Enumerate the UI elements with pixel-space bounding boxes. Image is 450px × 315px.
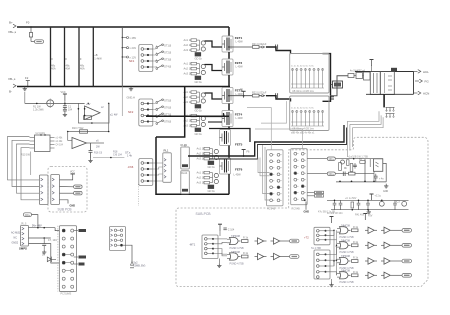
bridge BD1 dark — [391, 68, 397, 71]
transformer T1 — [370, 72, 380, 95]
vcc stub MT1 — [218, 224, 222, 236]
wire row3 to oval — [60, 192, 74, 194]
svg-text:GND2: GND2 — [12, 242, 19, 245]
wire left loop 4 — [21, 148, 39, 200]
connector J1 B+ — [8, 21, 17, 34]
capacitor C32 plus — [374, 174, 384, 182]
op-amp U1 — [85, 103, 105, 120]
buffer B42 — [271, 238, 283, 244]
wire row C top rail — [327, 199, 409, 201]
svg-text:+B: +B — [94, 53, 98, 57]
svg-text:C4 104: C4 104 — [56, 145, 64, 147]
wire MT collector verticals — [334, 230, 337, 275]
svg-text:x2, 4W: x2, 4W — [110, 114, 118, 117]
switch SW1b — [156, 51, 172, 56]
resistor R44 — [352, 226, 359, 232]
svg-text:+1u/10B 1W 1.7SB: +1u/10B 1W 1.7SB — [348, 155, 369, 158]
text smps left pins — [11, 232, 20, 245]
ground G3 — [63, 112, 67, 116]
svg-text:FET6: FET6 — [235, 168, 243, 172]
svg-text:SMPS: SMPS — [19, 247, 27, 251]
svg-text:L 40W: L 40W — [234, 174, 242, 177]
diode D5 zener — [42, 254, 56, 263]
wire block top edge — [146, 115, 229, 117]
resistor R42 — [242, 237, 249, 243]
component K1 dark box — [331, 81, 343, 88]
svg-text:74HC08: 74HC08 — [231, 251, 240, 254]
svg-text:(SMB, BV): (SMB, BV) — [134, 265, 146, 268]
svg-text:C 104: C 104 — [228, 229, 235, 232]
buffer B52 — [381, 272, 393, 278]
sense stub S3 — [122, 55, 137, 59]
wire gate FET4 thick — [205, 113, 224, 117]
svg-text:1s 2s 3s 4s 5s 6s 7s 8s: 1s 2s 3s 4s 5s 6s 7s 8s — [291, 108, 315, 110]
vcc stub small left — [330, 217, 334, 224]
opto coupler PC2 — [374, 159, 383, 182]
svg-text:VCC: VCC — [70, 171, 75, 173]
vcc stub phase B — [240, 88, 246, 98]
wire lower link — [93, 157, 124, 159]
capacitor C21 — [276, 45, 278, 50]
net label oval O44 — [402, 244, 412, 248]
switch SW2a — [156, 99, 172, 104]
capacitor C41 — [223, 228, 234, 232]
wire row C bottom rail — [331, 209, 409, 211]
wire NF3 to relay box — [153, 163, 163, 181]
driver cluster GD4 — [184, 114, 206, 136]
transformer box TX1 — [290, 54, 329, 94]
wire to oval O45 — [393, 260, 402, 262]
net label oval CD1 — [327, 157, 335, 161]
svg-text:B+: B+ — [9, 21, 13, 25]
fuse F2 stub — [25, 76, 30, 87]
ground G1 under bus — [127, 87, 135, 100]
svg-text:R 1k: R 1k — [353, 241, 359, 244]
svg-text:74HC08: 74HC08 — [231, 235, 240, 238]
net label oval CD3 — [24, 213, 32, 217]
resistor R32 — [307, 195, 323, 198]
connector NF3 — [128, 159, 153, 186]
svg-text:F2: F2 — [25, 76, 29, 80]
buffer B47 — [365, 242, 377, 248]
dotted pcb boundary below NF3 — [137, 184, 139, 206]
svg-text:GND,H: GND,H — [127, 96, 135, 100]
wire psu top rail — [355, 71, 414, 73]
op-amp U2 — [72, 138, 104, 149]
svg-text:GT2,B: GT2,B — [164, 52, 172, 55]
regulator IC3 — [396, 201, 407, 207]
ground G5 — [42, 250, 46, 254]
resistor R34 — [349, 172, 356, 175]
connector MT1 — [189, 235, 218, 259]
wire FET4-FET5 link — [228, 127, 230, 130]
connector NF1 — [129, 45, 153, 72]
svg-text:1.2k 2W6: 1.2k 2W6 — [33, 109, 44, 112]
transistor FET2 — [222, 59, 243, 75]
buffer B46 — [381, 227, 393, 233]
svg-text:SUB-PCB: SUB-PCB — [196, 212, 212, 216]
svg-text:PC'SUMS: PC'SUMS — [61, 293, 72, 296]
wire gate FET2 thick — [205, 65, 223, 71]
resistor R47 — [352, 271, 359, 277]
wire comb link1 — [386, 110, 388, 118]
resistor R45 — [352, 241, 359, 247]
node phase A tap — [228, 46, 252, 48]
driver cluster GD2 — [184, 62, 206, 84]
svg-text:-MT1: -MT1 — [189, 243, 196, 247]
connector MT2 — [314, 227, 330, 245]
wire CN2 to CD1 — [307, 158, 327, 160]
text R1 — [33, 106, 44, 112]
comb connector CB1 — [386, 107, 395, 111]
svg-text:+ 4x: + 4x — [379, 178, 384, 181]
wire rail A — [335, 158, 383, 160]
sub-pcb dashed border — [176, 137, 428, 286]
wire to oval O41 — [283, 240, 290, 242]
wire U1 feedback loop — [78, 103, 109, 123]
svg-text:GT5,B: GT5,B — [164, 100, 172, 103]
wire box1 TR corner thick — [323, 54, 331, 96]
wire MT1 to gates — [213, 239, 227, 256]
switch SW2b — [156, 106, 172, 111]
svg-text:GT3,B: GT3,B — [164, 59, 172, 62]
svg-text:x 24V: x 24V — [130, 46, 137, 50]
svg-text:R 1k: R 1k — [243, 237, 249, 240]
capacitor C23 dark — [331, 97, 334, 99]
resistor R46 — [352, 257, 359, 263]
svg-text:AC-M(S): AC-M(S) — [11, 232, 20, 235]
net label oval CD2 — [327, 172, 335, 176]
wire FET6 to block bottom — [228, 174, 230, 194]
svg-text:5V+ 48V: 5V+ 48V — [32, 224, 42, 227]
svg-text:74HC08: 74HC08 — [341, 224, 350, 227]
svg-text:IC3: IC3 — [396, 201, 400, 204]
node dots row C — [334, 200, 383, 211]
wire routing light B — [261, 101, 287, 123]
wire block top step — [156, 116, 185, 137]
component ACF chain — [348, 70, 370, 81]
ground G8 — [217, 259, 221, 268]
wire CN2 to CD2 — [307, 173, 327, 175]
svg-text:R 1k: R 1k — [353, 257, 359, 260]
svg-text:L 40W: L 40W — [236, 117, 244, 120]
smps module PS1 — [19, 223, 29, 251]
node dots rail C — [339, 181, 375, 183]
wire row2 to oval — [60, 186, 74, 188]
wire left loop 3 — [17, 144, 40, 193]
wire gate FET1 thick — [205, 41, 223, 47]
wire bus drop to block — [184, 87, 186, 117]
svg-text:R 1k: R 1k — [243, 252, 249, 255]
wire MT collector v1 — [326, 230, 337, 275]
connector CN-B — [51, 175, 60, 205]
wire FET4 source out thick — [209, 129, 250, 143]
wire smps out3 — [29, 244, 60, 263]
wire left loop 2 — [12, 140, 39, 186]
capacitor C31 — [343, 172, 345, 177]
connector MT3 — [311, 248, 330, 279]
wire psu down thick — [383, 94, 385, 107]
wire strip1 row feeds — [258, 158, 270, 176]
wire FET5-FET6 link — [228, 146, 230, 159]
gate U41 — [227, 235, 241, 245]
svg-text:NF2: NF2 — [128, 110, 134, 114]
svg-text:t1B 40ms x4 t2B 1ms: t1B 40ms x4 t2B 1ms — [292, 90, 315, 93]
wire FET1-FET2 link — [228, 52, 230, 59]
ground G9 — [329, 279, 333, 287]
resistor R21 — [252, 43, 267, 49]
transistor FET6 — [220, 158, 243, 177]
vcc stub psu — [370, 60, 374, 72]
resistor R10 — [67, 127, 110, 133]
svg-text:FET2: FET2 — [235, 61, 243, 65]
svg-text:74HC08: 74HC08 — [341, 239, 350, 242]
wire psu bottom rail — [366, 93, 414, 95]
buffer B48 — [381, 242, 393, 248]
wire routing light C — [255, 129, 303, 149]
switch SW1a — [156, 44, 172, 49]
capacitor C1 pair — [63, 103, 67, 112]
switch SW2d — [156, 120, 172, 125]
wire psu loop light1 — [347, 111, 379, 121]
transistor FET4 — [222, 111, 243, 127]
gate U43 — [337, 224, 351, 234]
wire strip1 left feed 1 — [263, 145, 270, 194]
node mid A — [259, 46, 275, 48]
cell shunt W2 — [65, 27, 71, 87]
svg-text:1s 2s 3s 4s 5s 6s 7s 8s: 1s 2s 3s 4s 5s 6s 7s 8s — [291, 66, 315, 68]
transformer box TX2 — [290, 96, 329, 131]
node dots MT — [333, 230, 337, 262]
svg-text:+C 1u: +C 1u — [375, 195, 382, 198]
wire phase C thick — [188, 125, 344, 156]
svg-text:ACN: ACN — [423, 92, 429, 96]
buffer B43 — [255, 253, 267, 259]
svg-text:1 4k: 1 4k — [127, 154, 133, 158]
net label oval O41 — [290, 239, 300, 243]
wire psu right rail — [413, 72, 415, 95]
svg-text:40A: 40A — [51, 67, 56, 71]
ground G2 below bus — [23, 87, 27, 104]
svg-text:74HC08: 74HC08 — [341, 255, 350, 258]
transistor FET1 — [222, 36, 243, 52]
label tag T1 dark — [74, 229, 86, 232]
capacitor C30 — [353, 158, 357, 169]
svg-text:GND: GND — [70, 205, 76, 208]
resistor R33 vertical — [344, 160, 349, 170]
svg-text:1.4kW: 1.4kW — [94, 57, 102, 61]
switch SW2c — [156, 113, 172, 118]
connector NF2 — [128, 99, 153, 126]
wire to oval O44 — [393, 244, 402, 246]
buffer B51 — [365, 272, 377, 278]
gate U45 — [337, 255, 351, 265]
wire to oval O43 — [393, 229, 402, 231]
resistor R37 vertical — [351, 202, 354, 208]
svg-text:CD+: CD+ — [329, 172, 335, 176]
net label oval SP1 — [74, 185, 83, 189]
svg-text:PGND 4.7SB: PGND 4.7SB — [340, 251, 354, 254]
svg-text:RLA4: RLA4 — [181, 172, 188, 175]
sense stub S1 — [122, 36, 137, 40]
wire FET4 aux — [208, 121, 222, 123]
wire JB1 out — [123, 245, 146, 268]
resistor R35 vertical — [339, 163, 342, 171]
wire psu loop light2 — [350, 115, 381, 124]
wire to oval O42 — [283, 256, 290, 258]
text under TX2 — [291, 133, 315, 135]
transistor FET5 — [220, 130, 243, 147]
svg-text:Tw 4.7SB: Tw 4.7SB — [311, 248, 321, 250]
svg-text:NC: NC — [14, 237, 18, 240]
wire rail B — [335, 173, 374, 175]
current transformer CT1 — [47, 99, 54, 109]
buffer B50 — [381, 258, 393, 264]
cell shunt W4 — [93, 27, 102, 87]
wire smps out2 cap — [29, 237, 58, 250]
comparator IC U2b box — [30, 132, 64, 152]
transistor Q31 — [341, 160, 345, 164]
svg-text:R 1k: R 1k — [353, 226, 359, 229]
svg-text:40A: 40A — [66, 67, 71, 71]
wire left loop 1 — [8, 137, 40, 180]
net label oval O45 — [402, 259, 412, 263]
svg-text:+T2: +T2 — [304, 236, 309, 240]
node mid B — [259, 95, 275, 97]
cell shunt W3 — [79, 27, 85, 87]
net label oval O42 — [290, 255, 300, 259]
svg-text:JR_S: JR_S — [21, 223, 27, 226]
vcc stub sub pcb — [60, 171, 76, 180]
svg-text:x2 40k: x2 40k — [56, 141, 64, 143]
capacitor C22 — [276, 93, 278, 98]
fuse F0 — [26, 21, 35, 42]
vcc stub row C — [370, 194, 382, 201]
wire strip2 bottom gnd — [304, 200, 310, 214]
wire routing light A — [247, 108, 271, 150]
filter box T2 — [380, 72, 394, 95]
svg-text:47u SB 0.1u SB: 47u SB 0.1u SB — [318, 211, 335, 214]
svg-text:GT4,B: GT4,B — [164, 66, 172, 69]
svg-text:R41 40k: R41 40k — [355, 214, 365, 217]
connector FG — [415, 79, 429, 83]
sense stub S2 — [122, 46, 137, 50]
connector CN9 — [59, 226, 76, 296]
svg-text:PGND 4.7SB: PGND 4.7SB — [230, 262, 244, 265]
svg-text:L 40W: L 40W — [236, 41, 244, 44]
switch SW1d — [156, 65, 172, 70]
wire strip1 left feed 2 — [265, 147, 270, 200]
vcc stub sense — [61, 91, 67, 104]
wire bottom bus B- — [17, 86, 230, 88]
svg-text:RC'04B: RC'04B — [292, 208, 301, 211]
svg-text:GT8,B: GT8,B — [164, 121, 172, 124]
driver cluster GD1 — [184, 38, 206, 60]
connector ACL — [414, 70, 430, 74]
resistor R22 — [252, 92, 267, 98]
wire psu feed from TX — [331, 76, 349, 96]
resistor R43 — [242, 252, 249, 258]
svg-text:R13 1W: R13 1W — [21, 154, 31, 157]
wire block left edge — [156, 137, 229, 194]
wire to oval O46 — [393, 274, 402, 276]
svg-text:NF1: NF1 — [129, 59, 135, 63]
net label oval O46 — [402, 274, 412, 278]
relay box RLA3 — [181, 143, 190, 169]
wire NF2 fanout — [153, 101, 157, 122]
svg-text:+C 1u 50V: +C 1u 50V — [345, 197, 357, 200]
driver cluster GD6 — [197, 171, 219, 193]
buffer B45 — [365, 227, 377, 233]
svg-text:R21 0.022uF: R21 0.022uF — [252, 43, 267, 46]
wire row2 to U2 — [68, 132, 72, 141]
svg-text:VB+,s: VB+,s — [8, 30, 17, 34]
transistor Q32 — [379, 201, 384, 206]
svg-text:x8B 40s xB1 4x 40s x1: x8B 40s xB1 4x 40s x1 — [291, 133, 315, 135]
connector CN-A — [39, 175, 48, 205]
resistor R33b — [359, 159, 365, 163]
svg-text:GND: GND — [383, 191, 388, 193]
wire psu loop down3 — [351, 128, 353, 147]
svg-text:40A: 40A — [80, 67, 85, 71]
wire phase A into box1 thick — [266, 47, 291, 54]
svg-text:RL1: RL1 — [164, 149, 169, 153]
wire phase C pair — [209, 128, 347, 160]
jumper box JB1 — [110, 227, 126, 251]
buffer B41 — [255, 238, 267, 244]
svg-text:GT6,B: GT6,B — [164, 107, 172, 110]
svg-text:-F66: -F66 — [128, 165, 134, 169]
wire NF1 fanout — [153, 46, 157, 68]
header strip CN1 — [267, 150, 284, 206]
svg-text:R 1k: R 1k — [353, 271, 359, 274]
relay box RL1 — [163, 149, 172, 183]
comb connector CB2 — [386, 114, 395, 118]
resistor R2 feedback — [78, 108, 93, 124]
wire rail A mid drop — [369, 159, 371, 167]
svg-text:x 48V: x 48V — [130, 36, 137, 40]
label tag T2 dark — [74, 256, 86, 259]
svg-text:+5V: +5V — [368, 215, 373, 218]
relay box RLA4 — [181, 171, 190, 194]
svg-text:FET5: FET5 — [235, 143, 243, 147]
wire gate FET3 thick — [205, 93, 223, 99]
svg-text:VCC: VCC — [61, 91, 66, 94]
wire bus corner to FET chain — [228, 27, 230, 36]
ground G6 — [383, 184, 388, 193]
svg-text:FG: FG — [425, 80, 430, 84]
sub pcb left dashed border — [48, 167, 87, 213]
node phase B tap — [228, 95, 252, 97]
wire psu loop down2 — [349, 124, 351, 150]
svg-text:RLA3: RLA3 — [181, 143, 188, 147]
connector J2 B- — [8, 77, 16, 94]
svg-text:FET4: FET4 — [235, 112, 243, 116]
wire IC to subpcb conn — [30, 152, 32, 176]
label tag T3 dark — [74, 263, 85, 266]
ground G7 — [367, 210, 371, 214]
svg-text:R16 C6: R16 C6 — [94, 152, 103, 155]
wire psu loop down1 — [346, 121, 348, 157]
svg-text:GND: GND — [304, 211, 310, 214]
net label oval GND1 — [35, 40, 44, 44]
net label oval O43 — [402, 229, 412, 233]
svg-text:4x 1N4007 x4: 4x 1N4007 x4 — [350, 70, 365, 73]
svg-text:CD+: CD+ — [329, 157, 335, 161]
svg-text:74HC08: 74HC08 — [341, 269, 350, 272]
wire rail C gnd — [336, 181, 386, 183]
wire CD3 drop — [32, 215, 38, 228]
